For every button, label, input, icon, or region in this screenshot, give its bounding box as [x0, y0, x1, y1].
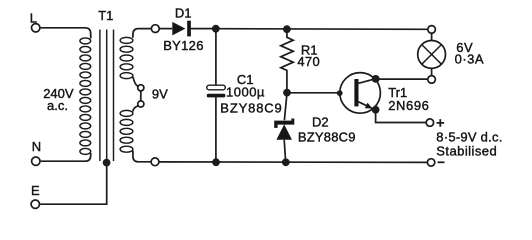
core earth junction	[103, 159, 111, 167]
svg-text:9V: 9V	[152, 86, 168, 101]
wire top rail node A to lamp	[218, 28, 428, 31]
svg-text:E: E	[31, 183, 40, 198]
wire C1 to bottom rail	[215, 97, 217, 161]
terminal E	[31, 200, 39, 208]
wire D1 cathode to node A	[191, 28, 213, 30]
junction C1 bottom	[212, 158, 220, 166]
node B junction R1 D2 base	[283, 89, 291, 97]
transistor Tr1	[337, 73, 381, 114]
label plus sign	[437, 119, 445, 127]
wire node B to D2	[284, 95, 286, 120]
terminal secondary bottom	[151, 158, 159, 166]
transformer secondary lower winding	[120, 110, 133, 152]
wire terminal to D1 anode	[159, 28, 172, 30]
svg-text:Stabilised: Stabilised	[436, 143, 497, 158]
svg-text:D2: D2	[312, 115, 329, 130]
wire L to transformer primary top	[41, 28, 91, 39]
terminal output plus	[426, 119, 433, 126]
svg-text:BZY88C9: BZY88C9	[220, 101, 282, 116]
diode D1	[172, 21, 191, 37]
wire collector to lamp	[378, 78, 428, 80]
terminal lamp top	[428, 26, 436, 34]
junction D2 bottom	[282, 158, 290, 166]
wire node A to C1	[215, 30, 217, 85]
transformer core	[100, 30, 114, 162]
svg-text:N: N	[32, 139, 41, 154]
junction Tr1 collector	[372, 75, 380, 83]
svg-text:2N696: 2N696	[388, 98, 429, 113]
wire D2 to bottom rail	[284, 140, 285, 162]
wire 9V tap link	[140, 91, 142, 100]
svg-text:T1: T1	[98, 8, 113, 23]
svg-text:8·5-9V d.c.: 8·5-9V d.c.	[436, 129, 502, 144]
wire E to transformer core	[40, 164, 107, 205]
wire 9V tap to secondary lower winding	[133, 106, 138, 112]
lamp 6V 0.3A	[418, 34, 446, 76]
terminal 9V tap lower	[138, 101, 144, 107]
node A junction	[212, 25, 220, 33]
transformer secondary upper winding	[120, 37, 133, 78]
wire secondary bottom to terminal	[133, 151, 151, 162]
terminal secondary top	[151, 25, 159, 33]
terminal output minus	[427, 159, 434, 166]
terminal L	[32, 24, 40, 32]
terminal 9V tap upper	[138, 85, 144, 91]
svg-text:0·3A: 0·3A	[455, 52, 484, 67]
wire secondary upper to 9V tap	[133, 77, 138, 86]
svg-text:L: L	[30, 10, 37, 25]
terminal lamp bottom	[428, 76, 436, 84]
svg-text:D1: D1	[175, 5, 192, 20]
svg-text:BZY88C9: BZY88C9	[298, 130, 356, 145]
zener diode D2	[274, 119, 294, 140]
wire secondary top to terminal	[133, 29, 151, 38]
transformer T1 primary winding	[80, 38, 91, 154]
label minus sign	[438, 161, 445, 163]
resistor R1	[281, 31, 293, 93]
svg-text:470: 470	[297, 54, 320, 69]
bottom rail wire	[159, 161, 427, 164]
junction Tr1 emitter	[372, 106, 380, 114]
node R1 top junction	[283, 25, 291, 33]
wire node B to Tr1 base	[289, 92, 338, 94]
svg-text:a.c.: a.c.	[47, 98, 68, 113]
svg-text:BY126: BY126	[163, 38, 204, 53]
capacitor C1	[207, 85, 226, 97]
wire N to primary bottom	[41, 153, 91, 161]
wire emitter to output plus	[376, 111, 426, 123]
terminal N	[32, 157, 40, 165]
svg-text:1000µ: 1000µ	[226, 85, 265, 100]
